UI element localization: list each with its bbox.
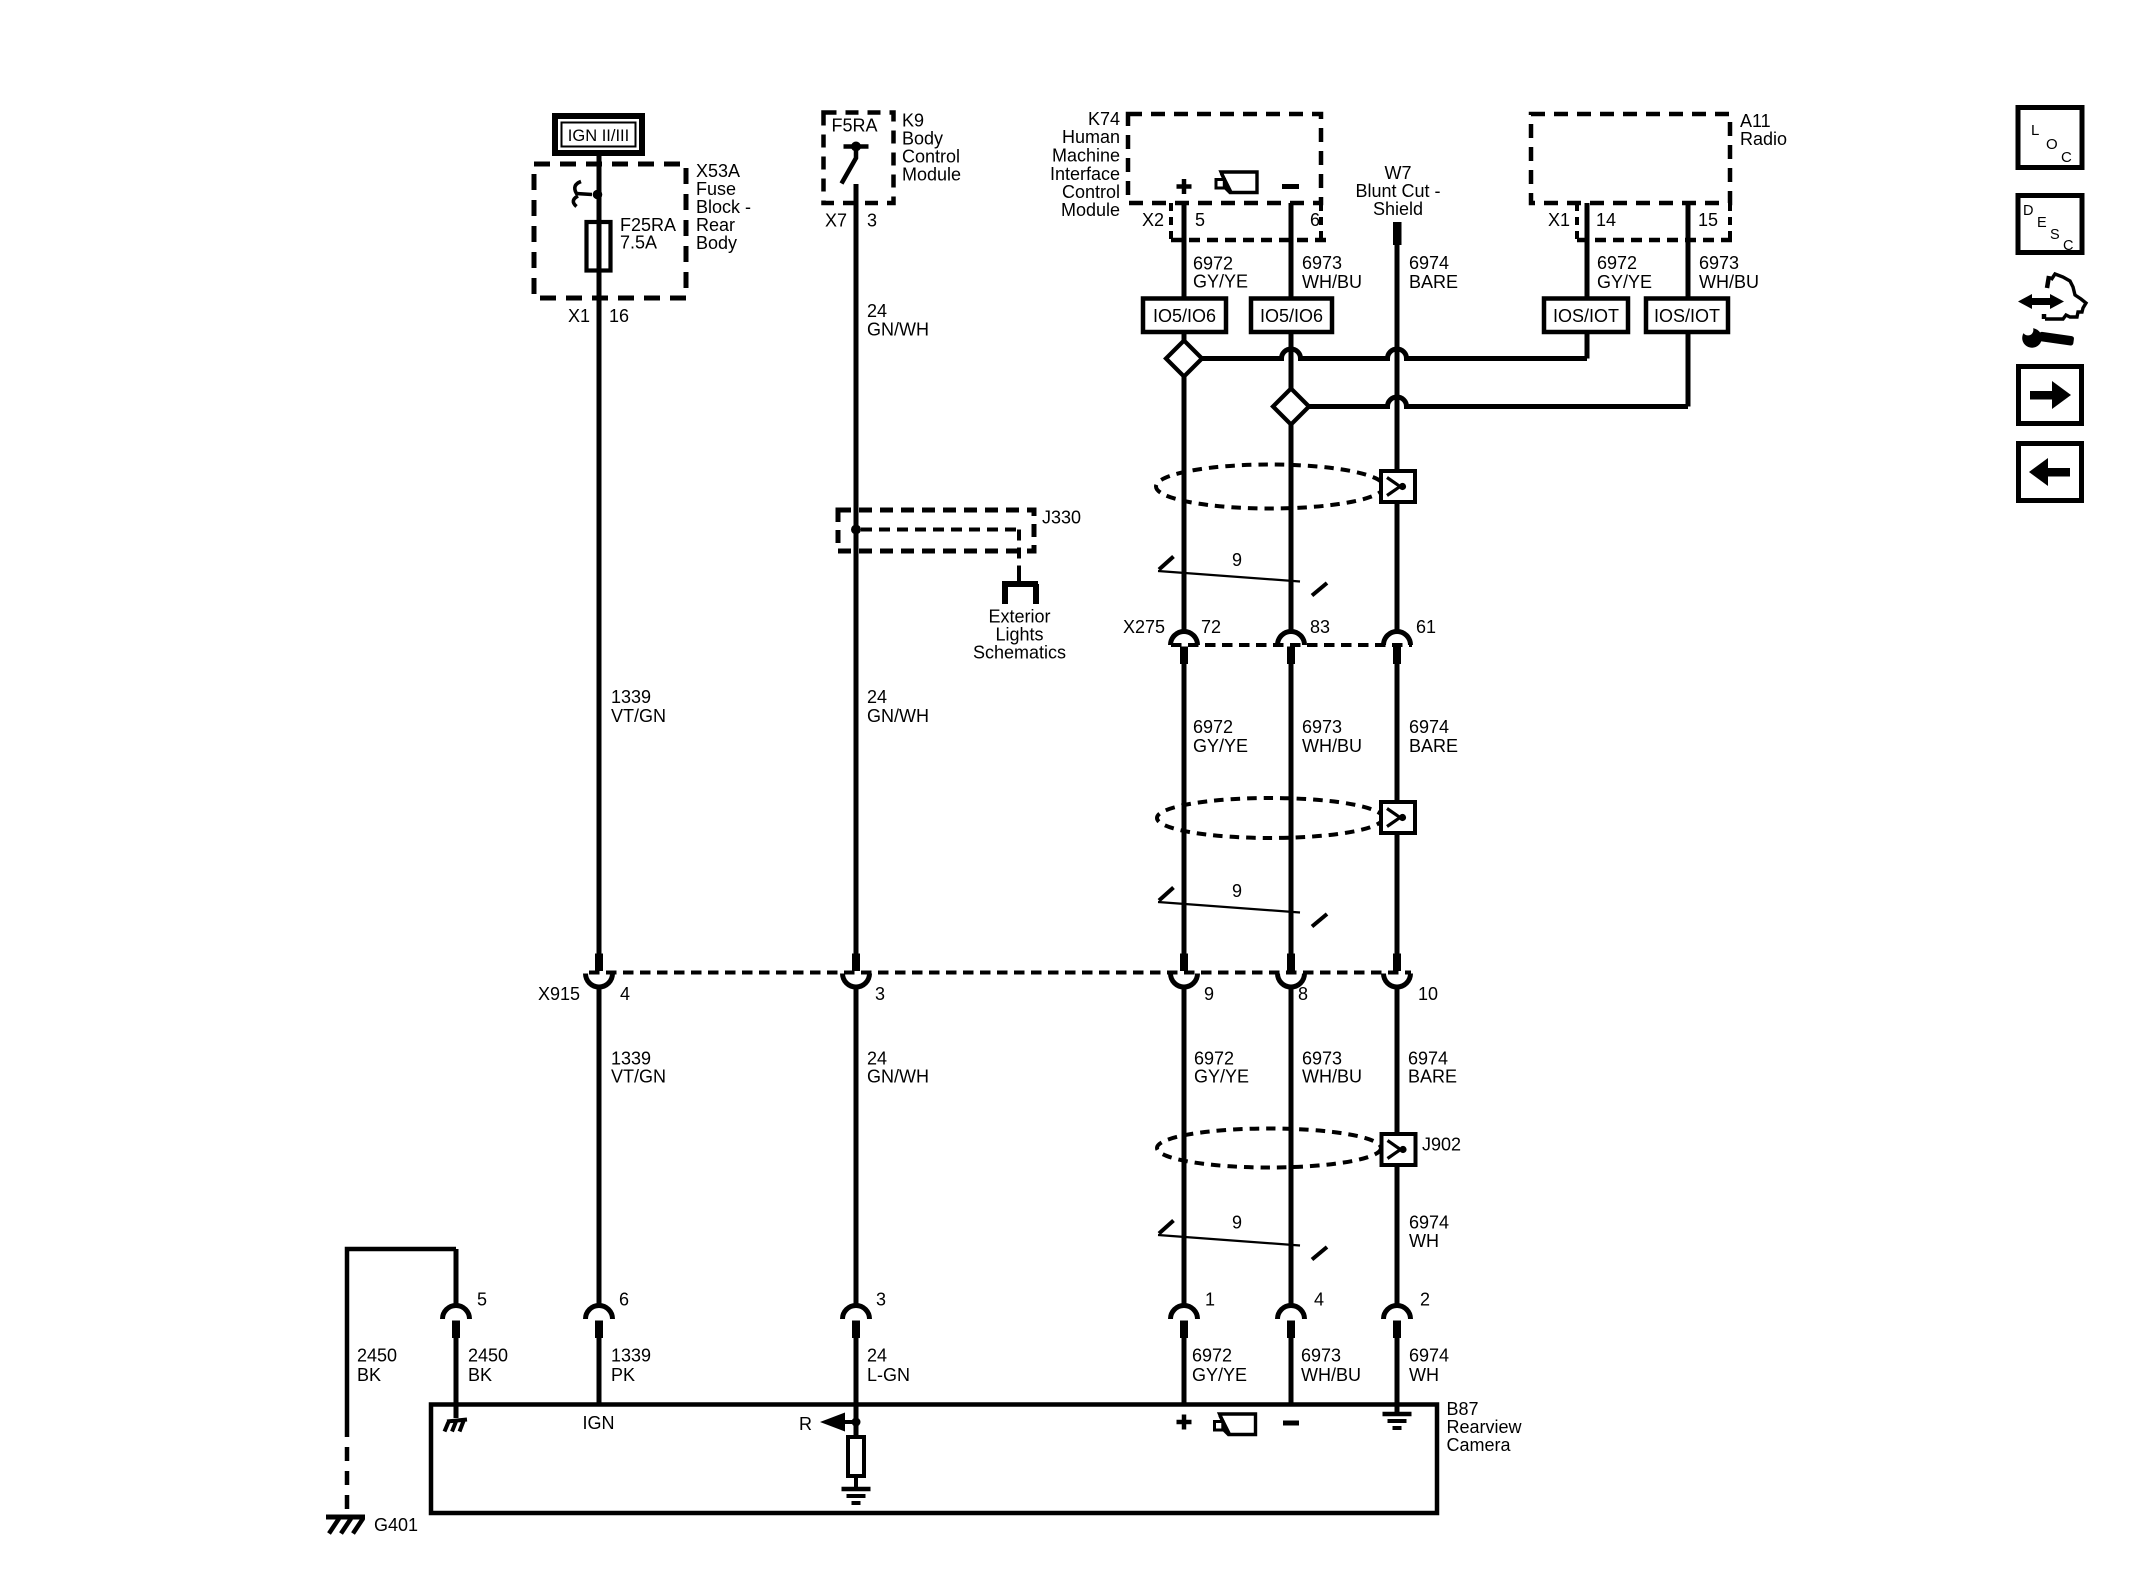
svg-text:J330: J330: [1042, 508, 1081, 528]
svg-text:GN/WH: GN/WH: [867, 320, 929, 340]
svg-text:6973: 6973: [1302, 253, 1342, 273]
svg-text:VT/GN: VT/GN: [611, 1067, 666, 1087]
svg-text:C: C: [2061, 149, 2072, 166]
camera connector pin 2: [1384, 1306, 1411, 1320]
svg-text:GN/WH: GN/WH: [867, 1067, 929, 1087]
svg-text:BK: BK: [357, 1365, 381, 1385]
svg-text:6972: 6972: [1597, 253, 1637, 273]
svg-text:24: 24: [867, 1049, 887, 1069]
wire 6972 GY/YE: [1182, 987, 1187, 1305]
svg-text:24: 24: [867, 1346, 887, 1366]
svg-text:Shield: Shield: [1373, 199, 1423, 219]
wire: [597, 156, 602, 954]
wire from IOS/IOT to diamond, hop over 6974: [1686, 332, 1691, 407]
power symbol IGN II/III: [555, 116, 642, 153]
fuse block X53A: [534, 164, 686, 298]
camera connector pin 5: [443, 1306, 470, 1320]
splice diamond (6972): [1166, 341, 1202, 377]
svg-text:BK: BK: [468, 1365, 492, 1385]
svg-text:7.5A: 7.5A: [620, 233, 657, 253]
svg-text:Body: Body: [902, 129, 943, 149]
wire 6974 BARE: [1395, 987, 1400, 1305]
splice diamond (6973): [1273, 389, 1309, 425]
prev-page arrow box: [2019, 444, 2082, 501]
svg-text:GY/YE: GY/YE: [1192, 1365, 1247, 1385]
svg-text:GY/YE: GY/YE: [1193, 736, 1248, 756]
svg-text:Exterior: Exterior: [988, 607, 1050, 627]
svg-text:6973: 6973: [1301, 1346, 1341, 1366]
svg-text:E: E: [2037, 215, 2047, 231]
svg-text:9: 9: [1204, 984, 1214, 1004]
svg-text:X2: X2: [1142, 210, 1164, 230]
svg-text:X1: X1: [568, 306, 590, 326]
svg-text:F5RA: F5RA: [832, 116, 878, 136]
svg-text:BARE: BARE: [1409, 736, 1458, 756]
svg-text:9: 9: [1232, 881, 1242, 901]
module K74 Human Machine Interface Control Module: [1128, 114, 1321, 203]
svg-text:GY/YE: GY/YE: [1597, 272, 1652, 292]
svg-text:W7: W7: [1385, 163, 1412, 183]
svg-text:6: 6: [1310, 210, 1320, 230]
svg-text:L-GN: L-GN: [867, 1365, 910, 1385]
minus terminal: [1282, 184, 1299, 189]
svg-text:2450: 2450: [468, 1346, 508, 1366]
svg-text:WH: WH: [1409, 1365, 1439, 1385]
svg-text:3: 3: [867, 211, 877, 231]
shield termination J902: [1382, 1134, 1416, 1165]
ground G401: [326, 1515, 365, 1520]
svg-text:IOS/IOT: IOS/IOT: [1654, 306, 1720, 326]
svg-text:6: 6: [619, 1290, 629, 1310]
svg-text:WH/BU: WH/BU: [1302, 272, 1362, 292]
wire radio pin15 6973 WH/BU: [1686, 203, 1691, 299]
wire 24 GN/WH: [854, 987, 859, 1305]
svg-text:6973: 6973: [1699, 253, 1739, 273]
svg-text:5: 5: [1195, 210, 1205, 230]
camera connector pin 1: [1171, 1306, 1198, 1320]
svg-text:6973: 6973: [1302, 1049, 1342, 1069]
LOC nav box: [2018, 108, 2082, 168]
svg-text:IO5/IO6: IO5/IO6: [1153, 306, 1216, 326]
svg-text:2450: 2450: [357, 1346, 397, 1366]
takeout IO5/IO6 (6973): [1251, 299, 1332, 333]
wire 6973 WH/BU: [1289, 987, 1294, 1305]
svg-text:C: C: [2063, 238, 2073, 254]
module B87 Rearview Camera: [431, 1405, 1437, 1514]
splice pack J330: [838, 510, 1034, 551]
svg-text:1339: 1339: [611, 1049, 651, 1069]
svg-text:1339: 1339: [611, 687, 651, 707]
svg-text:6972: 6972: [1194, 1049, 1234, 1069]
wire camera pin 5: [454, 1249, 459, 1305]
svg-text:X53A: X53A: [696, 161, 740, 181]
wire from IOS/IOT to diamond, hops over 6973 and 6974: [1585, 332, 1590, 359]
fuse F25RA 7.5A: [587, 222, 611, 271]
svg-text:PK: PK: [611, 1365, 635, 1385]
svg-text:3: 3: [876, 1290, 886, 1310]
svg-text:Control: Control: [1062, 182, 1120, 202]
svg-text:6972: 6972: [1192, 1346, 1232, 1366]
svg-text:A11: A11: [1740, 111, 1771, 131]
svg-text:3: 3: [875, 984, 885, 1004]
svg-text:J902: J902: [1422, 1135, 1461, 1155]
svg-text:K9: K9: [902, 111, 924, 131]
takeout IOS/IOT (radio 6972): [1544, 299, 1628, 333]
takeout IOS/IOT (radio 6973): [1646, 299, 1728, 333]
svg-text:Module: Module: [902, 165, 961, 185]
wire radio pin14 6972 GY/YE: [1585, 203, 1590, 299]
svg-text:61: 61: [1416, 617, 1436, 637]
svg-text:BARE: BARE: [1409, 272, 1458, 292]
svg-text:Rear: Rear: [696, 215, 735, 235]
wire 1339 VT/GN: [597, 987, 602, 1305]
svg-text:X915: X915: [538, 984, 580, 1004]
in-line connector X915 pins 4 3 9 8 10: [589, 971, 1411, 975]
svg-text:72: 72: [1201, 617, 1221, 637]
diagnostic icon (arrow + wrench): [2018, 274, 2086, 319]
svg-text:Module: Module: [1061, 200, 1120, 220]
svg-text:WH: WH: [1409, 1231, 1439, 1251]
svg-text:16: 16: [609, 306, 629, 326]
internal ground: [842, 1487, 871, 1492]
body control module F5RA box: [824, 113, 894, 204]
svg-text:IO5/IO6: IO5/IO6: [1260, 306, 1323, 326]
wire 6974 BARE: [1395, 664, 1400, 954]
ground terminal (pin 2): [1383, 1412, 1412, 1417]
off-page branch symbol: [1017, 572, 1021, 584]
svg-text:Body: Body: [696, 233, 737, 253]
shield ellipse: [1156, 465, 1384, 509]
svg-text:IOS/IOT: IOS/IOT: [1553, 306, 1619, 326]
wire 6974 BARE: [1395, 245, 1400, 630]
svg-text:6974: 6974: [1409, 717, 1449, 737]
shield termination J-box: [1381, 802, 1415, 833]
svg-text:X275: X275: [1123, 617, 1165, 637]
svg-text:9: 9: [1232, 550, 1242, 570]
wire 24 GN/WH: [854, 184, 859, 954]
svg-text:4: 4: [1314, 1290, 1324, 1310]
camera icon: [1215, 1414, 1256, 1435]
wire: [1289, 425, 1294, 631]
svg-text:6972: 6972: [1193, 254, 1233, 274]
svg-text:D: D: [2023, 203, 2033, 219]
svg-text:GY/YE: GY/YE: [1193, 272, 1248, 292]
svg-text:Radio: Radio: [1740, 129, 1787, 149]
svg-text:6974: 6974: [1408, 1049, 1448, 1069]
svg-text:15: 15: [1698, 210, 1718, 230]
wire 2450 BK to G401: [347, 1249, 456, 1423]
camera connector pin 3: [843, 1306, 870, 1320]
svg-text:GY/YE: GY/YE: [1194, 1067, 1249, 1087]
svg-text:6974: 6974: [1409, 253, 1449, 273]
svg-text:Machine: Machine: [1052, 146, 1120, 166]
switch contact: [844, 144, 869, 149]
next-page arrow box: [2019, 367, 2082, 424]
connector X2 pins 5 6: [1169, 203, 1173, 240]
svg-text:WH/BU: WH/BU: [1699, 272, 1759, 292]
svg-text:R: R: [799, 1414, 812, 1434]
svg-text:S: S: [2050, 227, 2060, 243]
svg-text:L: L: [2031, 122, 2039, 139]
wire 6972 GY/YE: [1182, 203, 1187, 299]
svg-text:Schematics: Schematics: [973, 643, 1066, 663]
wire: [1182, 332, 1187, 341]
shield ellipse: [1157, 798, 1383, 838]
svg-text:IGN II/III: IGN II/III: [568, 127, 629, 145]
svg-text:9: 9: [1232, 1213, 1242, 1233]
camera icon: [1216, 172, 1257, 193]
wire 6973 WH/BU: [1289, 203, 1294, 299]
camera connector pin 6: [586, 1306, 613, 1320]
chassis ground symbol (pin 5): [447, 1420, 467, 1422]
svg-text:6972: 6972: [1193, 717, 1233, 737]
wire: [1289, 332, 1294, 389]
internal resistor: [848, 1437, 864, 1476]
svg-text:O: O: [2046, 136, 2058, 153]
svg-text:14: 14: [1596, 210, 1616, 230]
svg-text:Interface: Interface: [1050, 164, 1120, 184]
svg-text:Block -: Block -: [696, 197, 751, 217]
svg-text:6973: 6973: [1302, 717, 1342, 737]
svg-text:X1: X1: [1548, 210, 1570, 230]
svg-text:8: 8: [1298, 984, 1308, 1004]
wire: [1182, 377, 1187, 631]
svg-text:G401: G401: [374, 1515, 418, 1535]
svg-text:1339: 1339: [611, 1346, 651, 1366]
svg-text:B87: B87: [1447, 1399, 1479, 1419]
wire 6973 WH/BU: [1289, 664, 1294, 954]
svg-text:WH/BU: WH/BU: [1302, 1067, 1362, 1087]
svg-text:BARE: BARE: [1408, 1067, 1457, 1087]
svg-text:Fuse: Fuse: [696, 179, 736, 199]
svg-text:2: 2: [1420, 1290, 1430, 1310]
shield ellipse: [1157, 1129, 1381, 1168]
svg-text:WH/BU: WH/BU: [1301, 1365, 1361, 1385]
svg-text:6974: 6974: [1409, 1213, 1449, 1233]
shield termination J-box: [1381, 471, 1415, 502]
wire 6972 GY/YE: [1182, 664, 1187, 954]
fuse-block terminal hook: [575, 182, 592, 195]
svg-text:4: 4: [620, 984, 630, 1004]
svg-text:Control: Control: [902, 147, 960, 167]
svg-text:WH/BU: WH/BU: [1302, 736, 1362, 756]
svg-text:X7: X7: [825, 211, 847, 231]
svg-text:K74: K74: [1088, 109, 1120, 129]
svg-text:VT/GN: VT/GN: [611, 706, 666, 726]
svg-text:Human: Human: [1062, 127, 1120, 147]
svg-text:24: 24: [867, 301, 887, 321]
svg-text:Lights: Lights: [995, 625, 1043, 645]
svg-text:IGN: IGN: [582, 1413, 614, 1433]
svg-text:10: 10: [1418, 984, 1438, 1004]
camera connector pin 4: [1278, 1306, 1305, 1320]
DESC nav box: [2018, 196, 2082, 253]
svg-text:Camera: Camera: [1447, 1435, 1512, 1455]
module A11 Radio: [1531, 114, 1730, 203]
connector X1 pins 14 15: [1575, 203, 1579, 240]
svg-text:GN/WH: GN/WH: [867, 706, 929, 726]
svg-text:1: 1: [1205, 1290, 1215, 1310]
minus terminal: [1283, 1421, 1299, 1426]
svg-text:6974: 6974: [1409, 1346, 1449, 1366]
plus terminal: [1177, 184, 1192, 189]
plus terminal: [1177, 1420, 1192, 1425]
svg-text:83: 83: [1310, 617, 1330, 637]
svg-text:24: 24: [867, 687, 887, 707]
svg-text:Blunt Cut -: Blunt Cut -: [1355, 181, 1440, 201]
svg-text:Rearview: Rearview: [1447, 1417, 1523, 1437]
takeout IO5/IO6 (6972): [1143, 299, 1226, 333]
svg-text:5: 5: [477, 1290, 487, 1310]
